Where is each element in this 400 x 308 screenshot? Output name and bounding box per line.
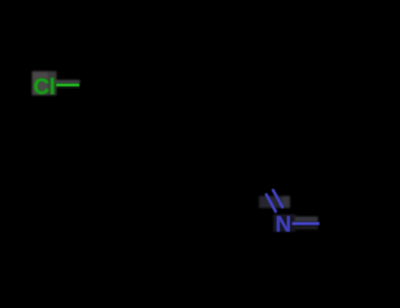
svg-text:N: N [275, 211, 291, 236]
svg-text:Cl: Cl [33, 74, 55, 99]
